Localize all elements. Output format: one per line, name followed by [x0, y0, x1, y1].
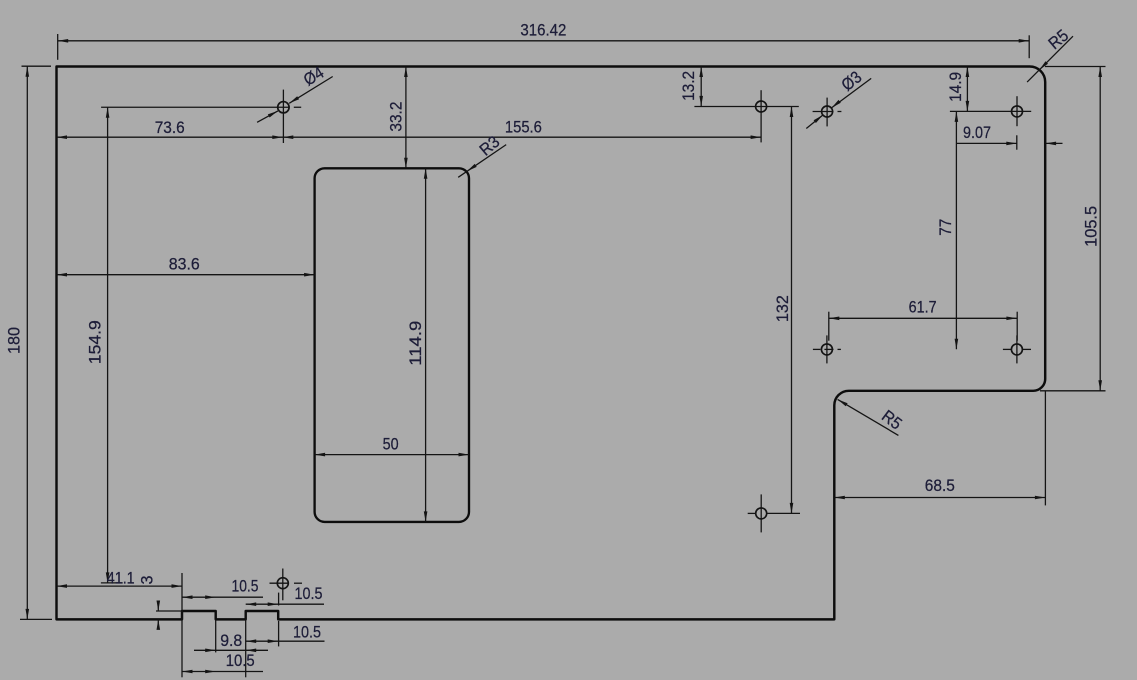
svg-text:180: 180 [5, 327, 24, 354]
svg-text:14.9: 14.9 [946, 72, 965, 102]
svg-text:68.5: 68.5 [925, 476, 955, 495]
svg-text:10.5: 10.5 [226, 651, 255, 670]
svg-text:10.5: 10.5 [293, 622, 321, 641]
svg-text:9.8: 9.8 [220, 631, 242, 650]
svg-text:77: 77 [936, 219, 955, 236]
svg-text:3: 3 [138, 576, 157, 585]
svg-text:50: 50 [383, 435, 399, 454]
svg-text:41.1: 41.1 [107, 568, 135, 587]
svg-text:9.07: 9.07 [963, 123, 991, 142]
svg-text:114.9: 114.9 [406, 321, 425, 366]
svg-text:33.2: 33.2 [387, 102, 406, 132]
svg-text:13.2: 13.2 [679, 71, 698, 101]
svg-text:155.6: 155.6 [505, 118, 542, 137]
svg-text:83.6: 83.6 [169, 254, 200, 273]
svg-text:316.42: 316.42 [520, 21, 566, 40]
svg-text:105.5: 105.5 [1081, 206, 1100, 247]
svg-text:10.5: 10.5 [295, 584, 323, 603]
svg-text:132: 132 [773, 295, 792, 322]
svg-text:10.5: 10.5 [232, 577, 259, 596]
svg-text:154.9: 154.9 [86, 320, 105, 364]
svg-text:61.7: 61.7 [909, 298, 937, 317]
svg-text:73.6: 73.6 [155, 118, 185, 137]
